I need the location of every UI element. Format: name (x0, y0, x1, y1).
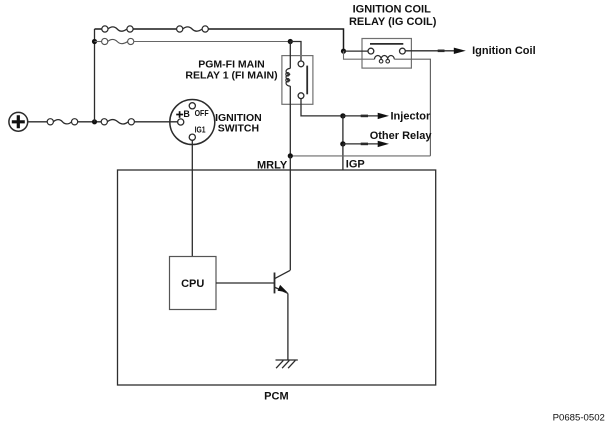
wire IGP down to PCM (342, 144, 344, 170)
wire fuse F1 to junction (78, 121, 102, 123)
relay 1 coil wire upper (289, 42, 291, 69)
wire relay 1 switch output to injector node (301, 98, 340, 116)
relay 1 contact bar (306, 66, 308, 95)
fuse F4 (rail 1 right) (177, 26, 209, 32)
node: MRLY junction (288, 153, 293, 158)
coil of relay 1 (286, 68, 290, 86)
arrow to Ignition Coil (405, 48, 466, 54)
node: injector junction (340, 113, 345, 118)
relay box ignition coil relay (362, 39, 411, 69)
wire ignition switch IG1 to CPU (191, 140, 193, 257)
svg-text:Ignition Coil: Ignition Coil (472, 45, 536, 57)
wire MRLY node into PCM to transistor collector (289, 156, 291, 271)
svg-text:CPU: CPU (181, 278, 204, 290)
svg-text:B: B (183, 109, 190, 119)
wire rail 1 to ignition coil relay (208, 29, 343, 51)
svg-text:OFF: OFF (195, 108, 209, 118)
wire injector node down to other relay node (342, 116, 344, 144)
fuse F3 (rail 1 left) (102, 26, 133, 32)
svg-text:IG1: IG1 (195, 126, 206, 135)
wire relay 1 coil to MRLY node (289, 86, 291, 156)
wire rail 1 middle (133, 28, 177, 30)
arrow to Other Relay (343, 141, 389, 147)
wire rail 2 start (95, 41, 102, 43)
relay 1 contact: movable point (298, 61, 304, 67)
svg-text:IGNITION COIL: IGNITION COIL (353, 4, 432, 16)
svg-text:RELAY 1 (FI MAIN): RELAY 1 (FI MAIN) (185, 69, 277, 81)
coil of IG relay (375, 56, 395, 64)
fuse F2 (101, 119, 134, 125)
fuse F5 (rail 2) (102, 38, 134, 44)
PCM box (118, 170, 436, 385)
relay box PGM-FI main relay 1 (282, 56, 313, 105)
wire branch to IG relay coil (344, 51, 375, 59)
battery positive terminal (9, 112, 28, 131)
relay 1 contact: fixed point (298, 93, 304, 99)
ignition switch terminal +B (178, 119, 184, 125)
wire vertical riser from battery junction to top rails (94, 29, 96, 122)
svg-text:Other Relay: Other Relay (370, 130, 433, 142)
wire branch to relay 1 contact (290, 42, 301, 62)
svg-text:RELAY (IG COIL): RELAY (IG COIL) (349, 16, 437, 28)
wire CPU to transistor base (216, 282, 275, 284)
wire from IG relay coil line to MRLY node (290, 155, 430, 157)
node: ignition coil relay feed junction (341, 49, 346, 54)
ground (276, 360, 298, 368)
ignition switch terminal IG1 (189, 134, 195, 140)
svg-text:PCM: PCM (264, 391, 288, 403)
IG relay contact bar (370, 43, 403, 45)
wire IG relay coil to down-link (394, 59, 430, 156)
IG relay contact: left point (368, 48, 374, 54)
node: other relay junction (340, 141, 345, 146)
node: PGM-FI relay feed junction (288, 39, 293, 44)
wire battery to fuse (28, 121, 48, 123)
svg-text:MRLY: MRLY (257, 159, 288, 171)
wire rail 2 to PGM-FI relay (134, 41, 291, 43)
transistor Q1 (NPN) (275, 270, 291, 293)
svg-text:IGP: IGP (346, 158, 365, 170)
arrow to Injector (343, 113, 389, 119)
IG relay contact: right point (400, 48, 406, 54)
ignition switch body (170, 100, 215, 145)
ignition switch terminal OFF (189, 103, 195, 109)
wire to IG relay contact (344, 50, 369, 52)
node: battery feed junction (92, 119, 97, 124)
svg-text:P0685-0502: P0685-0502 (553, 413, 605, 424)
wire transistor emitter to ground (287, 293, 289, 360)
CPU box (170, 257, 217, 310)
wire fuse F2 to ignition switch (134, 121, 178, 123)
svg-text:SWITCH: SWITCH (218, 123, 259, 135)
fuse F1 (battery feed) (47, 119, 77, 125)
svg-text:Injector: Injector (391, 110, 431, 122)
label +B (176, 111, 183, 118)
wire top rail 1 start (95, 28, 102, 30)
node: rail 2 junction at riser (92, 39, 97, 44)
